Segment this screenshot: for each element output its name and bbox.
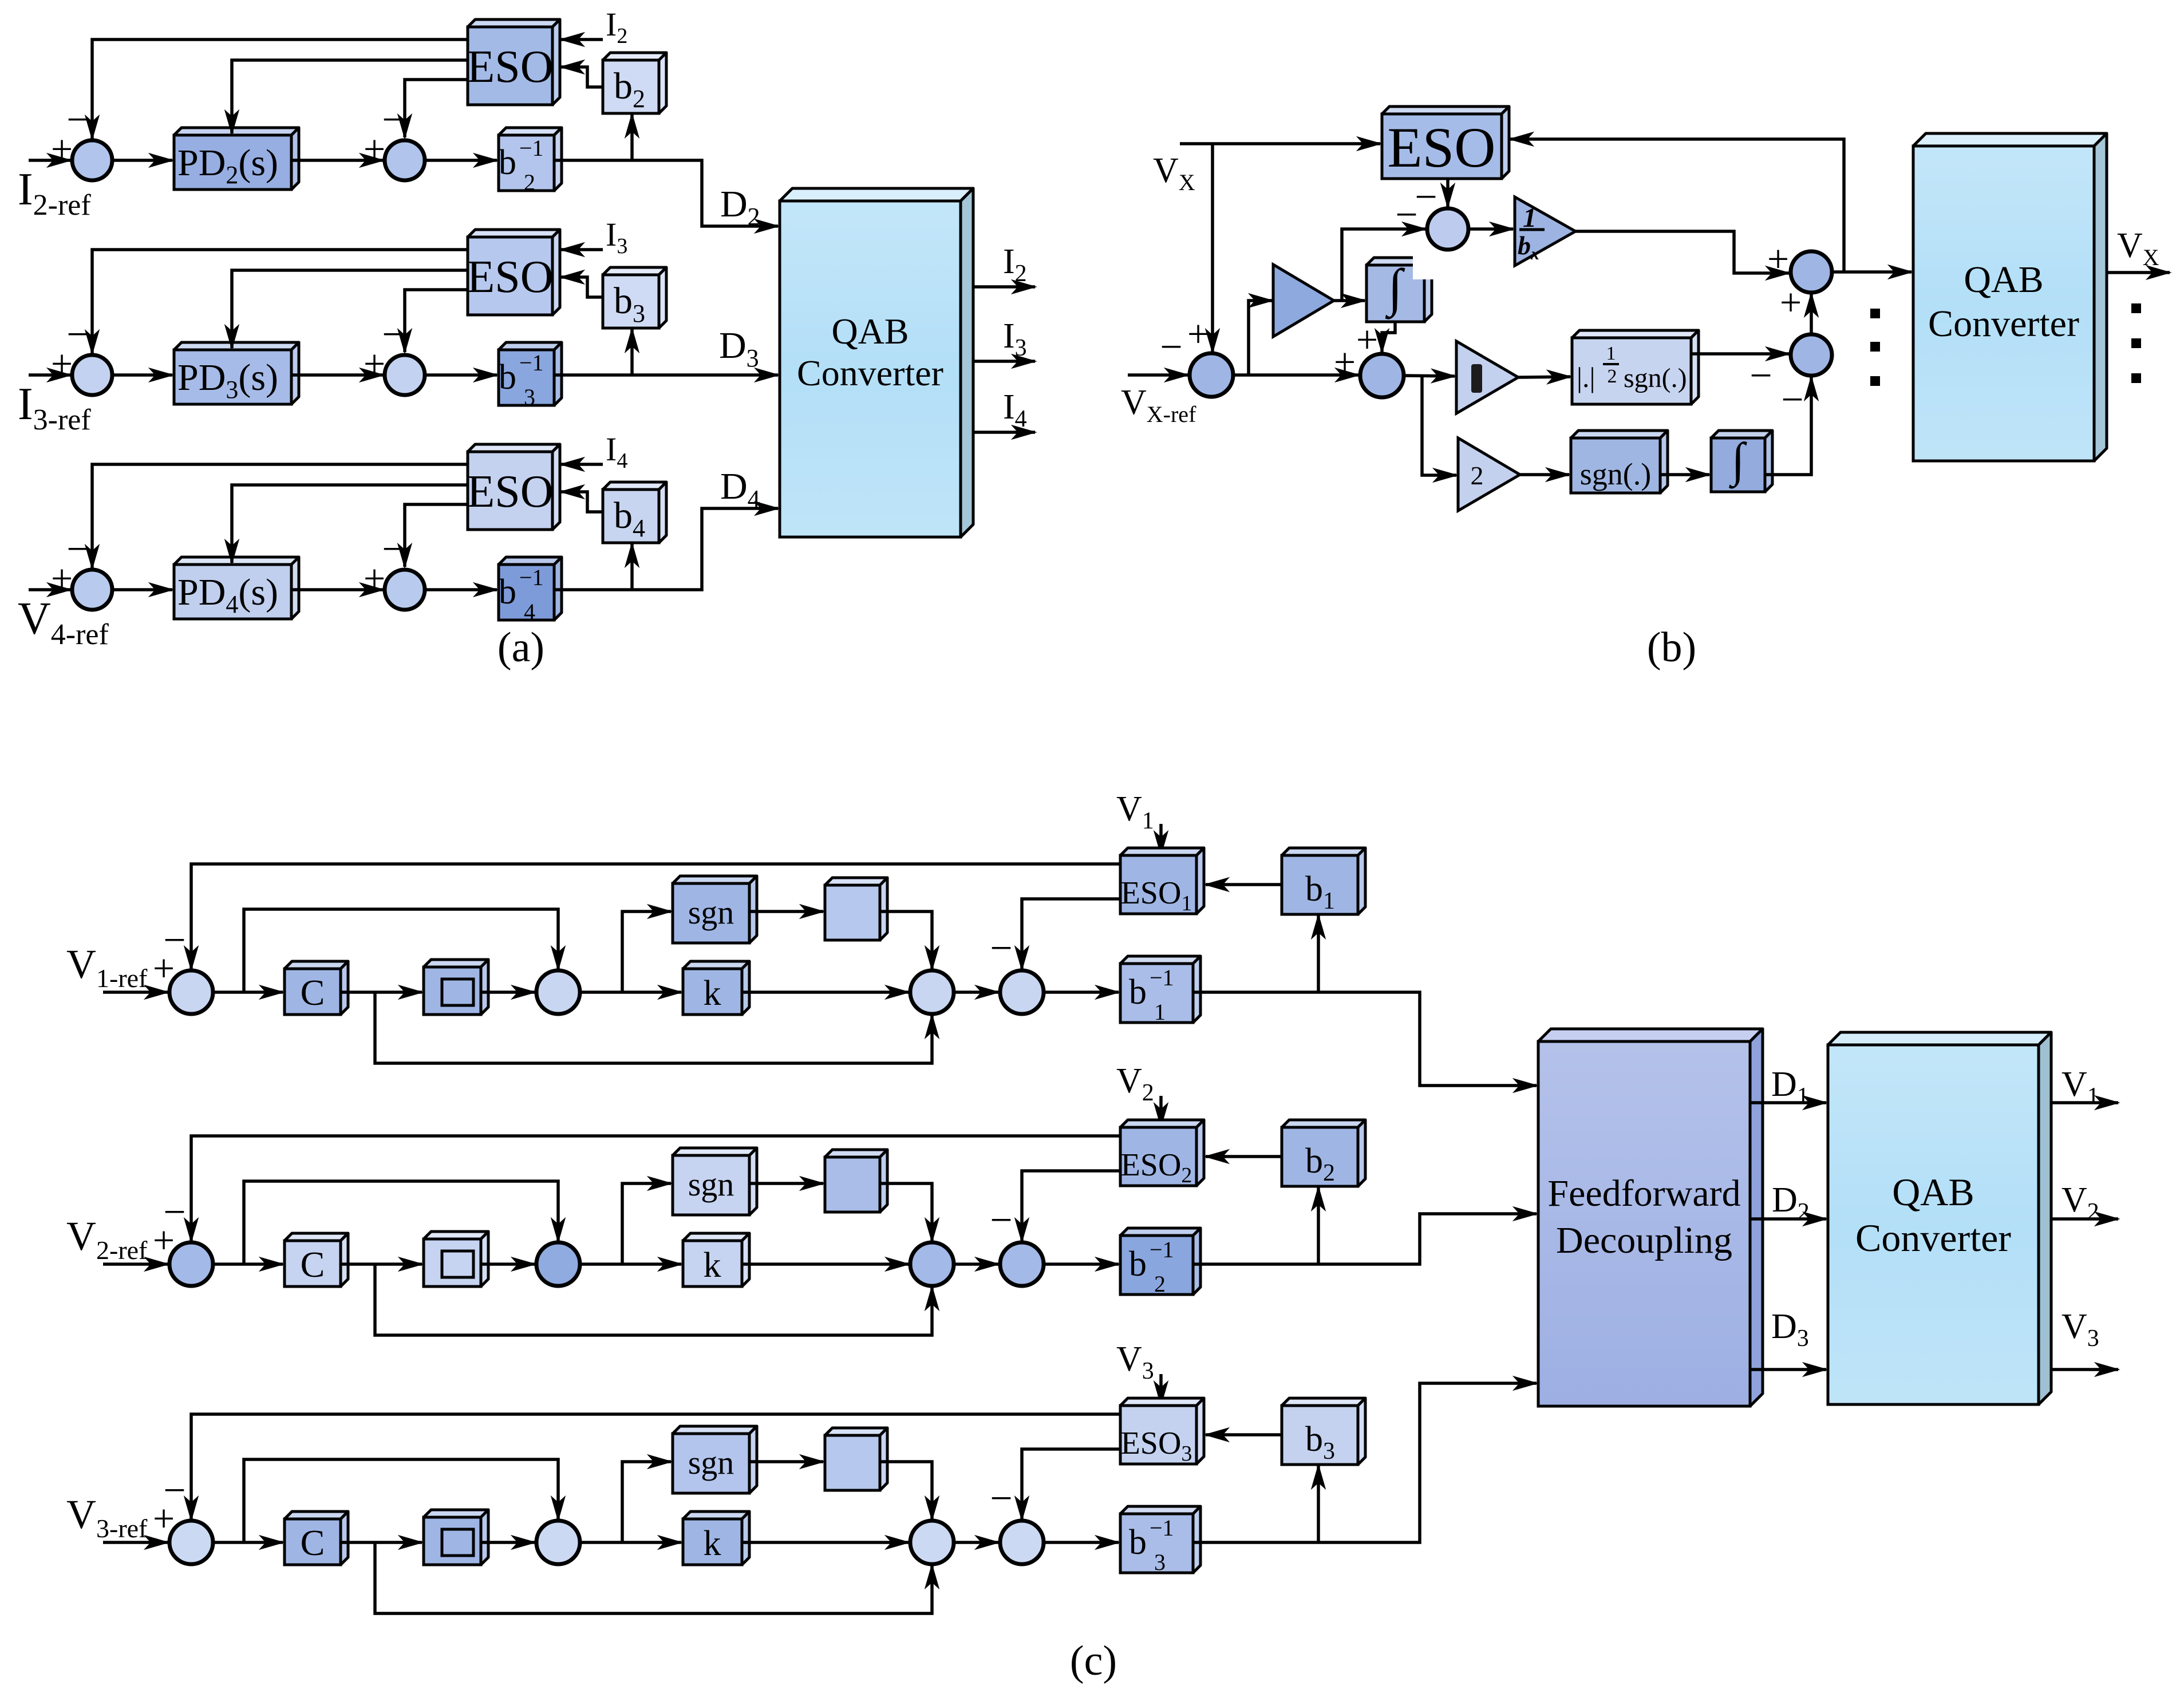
plus sign at sum1 top (b) — [1187, 312, 1209, 356]
svg-text:I4: I4 — [1003, 388, 1027, 432]
svg-text:−: − — [382, 527, 404, 571]
svg-text:sgn(.): sgn(.) — [1580, 457, 1651, 491]
block C (c) row 2 — [285, 1233, 348, 1286]
plus sign at sum1 (a) row 3 — [51, 342, 73, 385]
wire sum2 to b2 inverse block (a) — [425, 159, 497, 162]
wire sgn to blank block (c) row 2 — [749, 1182, 823, 1185]
wire sum1 to PD3(s) (a) — [112, 373, 172, 377]
minus sign sum-c1 (c) row 1 — [163, 918, 185, 962]
svg-text:V2: V2 — [1116, 1061, 1154, 1106]
svg-text:Feedforward: Feedforward — [1547, 1173, 1740, 1214]
label VX-ref (b) — [1121, 383, 1196, 427]
wire input V3-ref (c) — [103, 1541, 168, 1544]
minus sign at sum1 (a) row 4 — [66, 527, 89, 571]
svg-text:b: b — [1129, 1523, 1147, 1562]
minus sign at sum1 left (b) — [1160, 325, 1182, 369]
wire C to square block (c) row 3 — [341, 1541, 422, 1544]
wire ESO down to sum-b2 (b) — [1446, 179, 1450, 207]
summing junction 4 (b) — [1791, 251, 1832, 293]
summing junction c1 (c) row 1 — [169, 970, 213, 1014]
wire sum1 to PD4(s) (a) — [112, 588, 172, 591]
block QAB Converter (a) — [780, 188, 973, 537]
svg-text:−1: −1 — [519, 350, 544, 376]
wire b3 to ESO (a) — [561, 277, 603, 297]
block b2 inverse — [499, 128, 562, 195]
svg-text:−: − — [1749, 354, 1772, 398]
wire sum-c2 to k (c) row 2 — [580, 1262, 681, 1266]
svg-text:V3-ref: V3-ref — [66, 1491, 148, 1543]
block Feedforward Decoupling (c) — [1538, 1029, 1763, 1406]
svg-text:k: k — [704, 1524, 721, 1563]
summing junction c2 (c) row 1 — [536, 970, 580, 1014]
svg-text:k: k — [704, 1246, 721, 1285]
block k (c) row 1 — [683, 961, 749, 1015]
svg-text:(c): (c) — [1070, 1637, 1117, 1684]
wire PD4(s) to sum2 (a) — [291, 588, 383, 591]
wire sum2 to b4 inverse block (a) — [425, 588, 497, 591]
block QAB Converter (b) — [1913, 133, 2107, 461]
svg-text:2: 2 — [1471, 461, 1484, 490]
wire bottom feedback (c) row 2 — [375, 1264, 932, 1335]
wire k to sum-c3 (c) row 1 — [742, 990, 909, 994]
op-amp ESO (a) row 3 — [467, 230, 560, 315]
svg-text:|.|: |.| — [1577, 361, 1595, 393]
summing junction 3 (b) — [1791, 334, 1832, 376]
op-amp ESO1 (c) — [1120, 848, 1204, 915]
svg-text:+: + — [1767, 237, 1789, 281]
block b1 (c) — [1282, 848, 1365, 914]
minus sign at sum1 (a) row 2 — [66, 98, 89, 142]
op-amp ESO3 (c) — [1120, 1398, 1204, 1466]
svg-text:−1: −1 — [1150, 965, 1174, 990]
white patch artifact over integrator 1 (b) — [1413, 251, 1455, 279]
svg-text:Converter: Converter — [1928, 303, 2079, 345]
wire inner feedback bypass (c) row 1 — [244, 909, 558, 992]
wire V2 into ESO2 (c) — [1159, 1096, 1163, 1126]
wire ESO output 1 to sum1 (a) row 3 — [92, 250, 468, 353]
summing junction 1 (a) row 3 — [72, 355, 112, 395]
label D3 (a) — [719, 325, 759, 372]
wire D4 route to QAB (a) — [554, 508, 778, 590]
wire ESO output 3 to sum2 (a) row 2 — [405, 80, 468, 137]
wire branch up to sum-b2 left (b) — [1342, 229, 1425, 301]
label V4-ref (a) — [18, 594, 109, 651]
svg-text:D2: D2 — [1772, 1181, 1810, 1225]
svg-text:+: + — [1334, 340, 1356, 384]
gain triangle with bar (b) — [1456, 341, 1518, 413]
wire sum-c4 to b1 inverse (c) — [1044, 990, 1119, 994]
svg-text:Decoupling: Decoupling — [1556, 1220, 1732, 1261]
summing junction 2 (a) row 3 — [385, 355, 425, 395]
wire square block to sum-c2 (c) row 1 — [481, 990, 535, 994]
summing junction c1 (c) row 2 — [169, 1242, 213, 1286]
blank block (c) row 3 — [825, 1428, 887, 1490]
svg-text:ESO: ESO — [467, 42, 553, 92]
svg-text:QAB: QAB — [1892, 1170, 1974, 1214]
label V3-ref (c) — [66, 1491, 148, 1543]
minus sign at sum2 (a) row 2 — [382, 98, 404, 142]
wire sum1 to sum2 (b) — [1233, 373, 1358, 377]
wire ESO1 output to sum-c4 (c) — [1022, 899, 1120, 969]
wire b1 to ESO1 (c) — [1206, 883, 1282, 886]
wire blank block to sum-c3 (c) row 1 — [880, 911, 932, 969]
gain triangle 2 (b) — [1458, 438, 1520, 511]
wire sum2 to b3 inverse block (a) — [425, 373, 497, 377]
block b2 — [603, 53, 666, 113]
wire sgn to blank block (c) row 3 — [749, 1460, 823, 1463]
wire I3 input into ESO (a) — [561, 248, 603, 251]
wire gain triangle to integrator (b) — [1334, 299, 1365, 302]
svg-text:sgn(.): sgn(.) — [1624, 363, 1687, 393]
wire sum-c2 to k (c) row 1 — [580, 990, 681, 994]
svg-text:D1: D1 — [1771, 1065, 1809, 1110]
minus sign at sum2 (a) row 4 — [382, 527, 404, 571]
svg-text:sgn: sgn — [688, 894, 734, 931]
block C (c) row 3 — [285, 1512, 348, 1565]
plus sign at sum1 (a) row 2 — [51, 127, 73, 171]
wire ESO2 output to sum-c4 (c) — [1022, 1171, 1120, 1241]
label I3 output (a) — [1003, 317, 1027, 361]
wire sum-c1 to C (c) row 3 — [213, 1541, 283, 1544]
block sgn(.) (b) — [1571, 431, 1668, 493]
summing junction b2 (b) — [1427, 208, 1468, 250]
block sgn (c) row 3 — [673, 1426, 757, 1493]
plus sign sum-c1 (c) row 3 — [153, 1497, 175, 1540]
op-amp ESO (a) row 4 — [467, 444, 560, 530]
wire square block to sum-c2 (c) row 3 — [481, 1541, 535, 1544]
svg-text:D4: D4 — [720, 465, 760, 513]
minus sign sum3 bottom (b) — [1781, 378, 1803, 422]
wire ESO output 2 to PD3 top (a) — [232, 270, 468, 348]
plus sign sum4 bottom (b) — [1780, 281, 1802, 324]
plus sign sum4 left (b) — [1767, 237, 1789, 281]
wire PD3(s) to sum2 (a) — [291, 373, 383, 377]
block b3 (c) — [1282, 1398, 1365, 1465]
wire PD2(s) to sum2 (a) — [291, 159, 383, 162]
minus sign sum-c1 (c) row 2 — [163, 1190, 185, 1234]
wire integrator 1 down into sum2 (b) — [1382, 322, 1395, 352]
wire ESO3 long feedback to sum-c1 (c) — [191, 1414, 1120, 1520]
wire VX output (b) — [2107, 271, 2170, 274]
ellipsis dots left of QAB (b) — [1870, 309, 1880, 386]
svg-text:D3: D3 — [719, 325, 759, 372]
label I2-ref (a) — [18, 164, 91, 222]
svg-text:(b): (b) — [1647, 624, 1696, 671]
svg-text:−: − — [990, 1198, 1012, 1242]
wire V1 into ESO1 (c) — [1159, 824, 1163, 854]
wire D2 route to QAB (a) — [554, 160, 778, 226]
op-amp ESO (b) — [1382, 106, 1509, 179]
wire k to sum-c3 (c) row 3 — [742, 1541, 909, 1544]
wire junction up into b4 (a) — [630, 544, 634, 590]
wire b4 to ESO (a) — [561, 492, 603, 512]
wire junction up into b2 (c) — [1317, 1187, 1320, 1264]
wire sum1 to PD2(s) (a) — [112, 159, 172, 162]
wire branch up to gain triangle (b) — [1249, 301, 1272, 375]
block QAB Converter (c) — [1828, 1032, 2051, 1404]
label V2 (c) — [1116, 1061, 1154, 1106]
wire sum-b2 to 1/bx triangle (b) — [1468, 227, 1513, 231]
wire ESO output 3 to sum2 (a) row 4 — [405, 504, 468, 567]
svg-text:b: b — [499, 358, 516, 397]
wire input I2-ref (a) row 2 — [29, 159, 70, 162]
wire input I3-ref (a) row 3 — [29, 373, 70, 377]
svg-text:−: − — [382, 313, 404, 357]
svg-text:VX: VX — [1153, 151, 1195, 195]
plus sign sum2 left (b) — [1334, 340, 1356, 384]
wire I2 output (a) — [973, 285, 1035, 289]
label V1-ref (c) — [66, 941, 148, 993]
svg-text:QAB: QAB — [1964, 259, 2043, 301]
svg-text:−: − — [66, 527, 89, 571]
svg-text:−: − — [66, 313, 89, 357]
plus sign sum-c1 (c) row 1 — [153, 946, 175, 990]
wire k to sum-c3 (c) row 2 — [742, 1262, 909, 1266]
wire ESO output 1 to sum1 (a) row 4 — [92, 464, 468, 568]
minus sign at sum-b2 left (b) — [1395, 193, 1417, 237]
svg-text:−: − — [382, 98, 404, 142]
block sgn (c) row 2 — [673, 1148, 757, 1215]
svg-text:4: 4 — [524, 599, 535, 625]
wire D3 route to QAB (a) — [554, 373, 778, 377]
wire b2 inverse output to Feedforward (c) — [1193, 1214, 1537, 1264]
svg-text:C: C — [301, 1522, 325, 1563]
plus sign at sum2 (a) row 4 — [364, 557, 385, 600]
svg-text:C: C — [301, 972, 325, 1013]
summing junction 2 (b) — [1360, 354, 1404, 397]
caption (c) — [1070, 1637, 1117, 1684]
summing junction c3 (c) row 1 — [910, 970, 954, 1014]
svg-text:−: − — [163, 918, 185, 962]
wire V1 output (c) — [2051, 1101, 2118, 1104]
block sgn (c) row 1 — [673, 876, 757, 943]
wire ESO2 long feedback to sum-c1 (c) — [191, 1136, 1120, 1241]
summing junction c4 (c) row 2 — [1000, 1242, 1044, 1286]
wire gain-2 to sgn block (b) — [1520, 473, 1569, 476]
label V1 (c) — [1116, 790, 1154, 834]
svg-text:−1: −1 — [1150, 1237, 1174, 1262]
plus sign at sum2 (a) row 3 — [364, 342, 385, 385]
svg-text:∫: ∫ — [1385, 258, 1405, 319]
minus sign at sum1 (a) row 3 — [66, 313, 89, 357]
wire sum-c4 to b3 inverse (c) — [1044, 1541, 1119, 1544]
integrator block 2 (b) — [1711, 431, 1772, 492]
wire ESO output 3 to sum2 (a) row 3 — [405, 290, 468, 352]
block PD4(s) — [174, 557, 299, 619]
block b3 — [603, 267, 666, 328]
svg-text:2: 2 — [524, 169, 535, 195]
label D4 (a) — [720, 465, 760, 513]
svg-text:3: 3 — [1154, 1549, 1166, 1575]
summing junction c3 (c) row 2 — [910, 1242, 954, 1286]
plus sign sum-c1 (c) row 2 — [153, 1218, 175, 1262]
block sqrt sgn (b) — [1572, 330, 1699, 404]
wire junction up into b3 (a) — [630, 329, 634, 375]
plus sign sum2 top (b) — [1356, 318, 1378, 361]
label D2 (a) — [720, 183, 760, 231]
svg-text:VX-ref: VX-ref — [1121, 383, 1196, 427]
svg-text:−: − — [990, 926, 1012, 970]
wire abs triangle to sqrt-sgn block (b) — [1518, 377, 1570, 377]
wire I2 input into ESO (a) — [561, 38, 603, 41]
label V2 output (c) — [2061, 1181, 2099, 1225]
label I3-ref (a) — [18, 379, 91, 436]
block PD3(s) — [174, 342, 299, 404]
plus sign at sum1 (a) row 4 — [51, 557, 73, 600]
wire feedback to ESO right (b) — [1510, 139, 1844, 272]
svg-text:2: 2 — [1154, 1271, 1166, 1297]
label I3 (a) input — [606, 216, 627, 258]
wire sum-c1 to C (c) row 1 — [213, 990, 283, 994]
label D1 (c) — [1771, 1065, 1809, 1110]
block squarer (c) row 3 — [424, 1510, 488, 1565]
minus sign at sum-b2 top (b) — [1415, 175, 1437, 219]
svg-text:I2: I2 — [1003, 242, 1027, 287]
svg-text:ESO: ESO — [467, 467, 553, 517]
block k (c) row 3 — [683, 1512, 749, 1565]
svg-text:−: − — [66, 98, 89, 142]
svg-text:−1: −1 — [519, 135, 544, 161]
wire junction up into b3 (c) — [1317, 1466, 1320, 1542]
wire C to square block (c) row 2 — [341, 1262, 422, 1266]
wire branch down to gain-2 triangle (b) — [1422, 376, 1456, 475]
svg-text:I3: I3 — [606, 216, 627, 258]
wire VX into ESO (b) — [1180, 142, 1380, 145]
svg-text:C: C — [301, 1244, 325, 1285]
svg-text:−: − — [990, 1477, 1012, 1521]
label VX output (b) — [2117, 226, 2159, 270]
svg-text:k: k — [704, 974, 721, 1013]
label I4 (a) input — [606, 431, 627, 473]
wire I3 output (a) — [973, 360, 1035, 363]
summing junction 1 (a) row 2 — [72, 140, 112, 180]
svg-text:V1: V1 — [2061, 1065, 2099, 1110]
summing junction c2 (c) row 3 — [536, 1521, 580, 1564]
wire sgn to blank block (c) row 1 — [749, 910, 823, 913]
wire sum2 to abs triangle (b) — [1404, 376, 1455, 376]
wire branch up to sgn (c) row 2 — [622, 1183, 671, 1264]
wire V3 into ESO3 (c) — [1159, 1374, 1163, 1404]
wire square block to sum-c2 (c) row 2 — [481, 1262, 535, 1266]
wire ESO output 1 to sum1 (a) row 2 — [92, 40, 468, 139]
svg-text:+: + — [1187, 312, 1209, 356]
wire ESO output 2 to PD4 top (a) — [232, 485, 468, 563]
label V3 (c) — [1116, 1340, 1154, 1384]
wire D3 (c) — [1750, 1368, 1826, 1371]
gain triangle (b) — [1273, 265, 1334, 337]
svg-text:b: b — [1129, 1245, 1147, 1284]
wire I4 output (a) — [973, 431, 1035, 434]
gain triangle 1/bx (b) — [1515, 197, 1575, 266]
minus sign sum-c4 (c) row 2 — [990, 1198, 1012, 1242]
summing junction c3 (c) row 3 — [910, 1521, 954, 1564]
blank block (c) row 1 — [825, 878, 887, 940]
wire sum-c3 to sum-c4 (c) row 3 — [954, 1541, 998, 1544]
wire input V4-ref (a) row 4 — [29, 588, 70, 591]
block k (c) row 2 — [683, 1233, 749, 1286]
wire 1/bx to sum4 (b) — [1575, 231, 1789, 273]
svg-text:QAB: QAB — [831, 311, 909, 352]
minus sign sum-c4 (c) row 3 — [990, 1477, 1012, 1521]
wire V3 output (c) — [2051, 1368, 2118, 1371]
wire blank block to sum-c3 (c) row 3 — [880, 1462, 932, 1520]
summing junction c2 (c) row 2 — [536, 1242, 580, 1286]
svg-text:ESO: ESO — [1388, 116, 1496, 179]
svg-text:1: 1 — [1154, 999, 1166, 1025]
svg-text:−1: −1 — [519, 565, 544, 590]
wire junction up into b1 (c) — [1317, 915, 1320, 992]
wire blank block to sum-c3 (c) row 2 — [880, 1183, 932, 1241]
wire branch up to sgn (c) row 1 — [622, 911, 671, 992]
integrator block 1 (b) — [1367, 258, 1432, 322]
caption (b) — [1647, 624, 1696, 671]
plus sign at sum2 (a) row 2 — [364, 127, 385, 171]
svg-text:Converter: Converter — [797, 353, 943, 393]
wire sum-c2 to k (c) row 3 — [580, 1541, 681, 1544]
svg-text:V3: V3 — [2061, 1307, 2099, 1352]
summing junction 2 (a) row 4 — [385, 570, 425, 610]
wire inner feedback bypass (c) row 3 — [244, 1459, 558, 1542]
block squarer (c) row 1 — [424, 960, 488, 1015]
block b3 inverse (c) — [1120, 1506, 1200, 1575]
svg-text:D3: D3 — [1771, 1307, 1809, 1352]
svg-text:I2: I2 — [606, 6, 627, 48]
wire VX down to sum1 (b) — [1211, 144, 1214, 352]
wire bottom feedback (c) row 1 — [375, 992, 932, 1063]
wire V2 output (c) — [2051, 1217, 2118, 1221]
wire sum-c1 to C (c) row 2 — [213, 1262, 283, 1266]
blank block (c) row 2 — [825, 1150, 887, 1212]
minus sign sum3 left (b) — [1749, 354, 1772, 398]
block C (c) row 1 — [285, 961, 348, 1015]
svg-text:V2: V2 — [2061, 1181, 2099, 1225]
block b1 inverse (c) — [1120, 956, 1200, 1025]
wire ESO3 output to sum-c4 (c) — [1022, 1449, 1120, 1520]
summing junction c4 (c) row 3 — [1000, 1521, 1044, 1564]
block b2 (c) — [1282, 1120, 1365, 1186]
svg-text:sgn: sgn — [688, 1166, 734, 1203]
wire b3 to ESO3 (c) — [1206, 1433, 1282, 1437]
label I4 output (a) — [1003, 388, 1027, 432]
label V3 output (c) — [2061, 1307, 2099, 1352]
block b2 inverse (c) — [1120, 1228, 1200, 1297]
svg-text:−: − — [163, 1190, 185, 1234]
label V1 output (c) — [2061, 1065, 2099, 1110]
minus sign at sum2 (a) row 3 — [382, 313, 404, 357]
wire branch up to sgn (c) row 3 — [622, 1462, 671, 1542]
svg-text:−: − — [1781, 378, 1803, 422]
wire VX-ref into sum1 (b) — [1128, 373, 1188, 377]
wire D2 (c) — [1750, 1217, 1826, 1221]
summing junction c4 (c) row 1 — [1000, 970, 1044, 1014]
wire input V1-ref (c) — [103, 990, 168, 994]
svg-text:I3: I3 — [1003, 317, 1027, 361]
svg-text:−1: −1 — [1150, 1515, 1174, 1541]
svg-text:ESO: ESO — [467, 252, 553, 302]
label D3 (c) — [1771, 1307, 1809, 1352]
wire sum4 to QAB (b) — [1832, 270, 1912, 274]
wire junction up into b2 (a) — [630, 115, 634, 160]
svg-text:Converter: Converter — [1855, 1216, 2011, 1260]
wire sum-c3 to sum-c4 (c) row 1 — [954, 990, 998, 994]
wire inner feedback bypass (c) row 2 — [244, 1181, 558, 1264]
svg-text:2: 2 — [1608, 366, 1617, 387]
label I2 output (a) — [1003, 242, 1027, 287]
label I2 (a) input — [606, 6, 627, 48]
svg-text:I4: I4 — [606, 431, 627, 473]
svg-text:b: b — [1129, 973, 1147, 1012]
wire sqrt-sgn block to sum3 (b) — [1691, 352, 1789, 356]
